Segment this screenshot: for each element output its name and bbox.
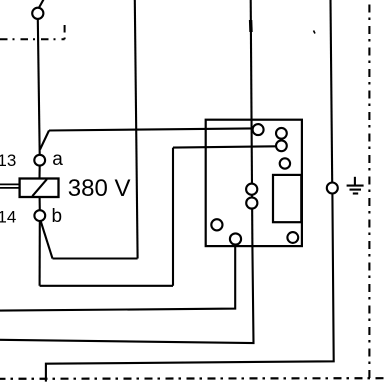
wire: vertical D from top to ring terminal xyxy=(331,0,333,183)
wire: vertical B up to top edge xyxy=(135,0,138,259)
terminal 1 in box xyxy=(253,124,264,135)
component inside box xyxy=(273,175,301,222)
svg-text:13: 13 xyxy=(0,151,16,170)
svg-text:14: 14 xyxy=(0,208,16,227)
svg-text:b: b xyxy=(52,206,63,227)
wire: vertical A from top terminal to node a xyxy=(38,19,40,155)
terminal 4 in box xyxy=(280,158,290,168)
terminal 9 in box xyxy=(287,232,298,243)
connector box U1 xyxy=(206,120,302,246)
scan speck near vertical D xyxy=(314,31,316,34)
wire: horizontal to vertical B xyxy=(53,257,138,259)
relay coil K (380 V) xyxy=(20,179,59,198)
wire: branch jog from vertical A to box feed xyxy=(40,131,49,150)
enclosure border bottom (dash-dot) xyxy=(0,377,384,380)
wire: horizontal from b-leg to riser xyxy=(40,285,173,287)
node b xyxy=(34,210,45,221)
wire: vertical C from top through box xyxy=(251,0,253,246)
enclosure border top-left (dash-dot corner) xyxy=(0,25,65,39)
wire: vertical C thick blemish xyxy=(249,20,253,32)
svg-text:a: a xyxy=(52,149,63,170)
wire: relay coil bottom to node b xyxy=(39,197,41,210)
wire: vertical C below box down and left to edge xyxy=(0,246,254,343)
relay coil feed double line xyxy=(0,184,20,188)
enclosure border right (dash-dot) xyxy=(368,0,370,379)
ring terminal on vertical D xyxy=(327,183,338,194)
terminal: top of wire A xyxy=(32,8,43,19)
terminal 6 on vertical C xyxy=(246,197,257,208)
wire: switch lever above top terminal xyxy=(39,0,44,8)
terminal 2 in box xyxy=(276,128,287,139)
terminal 7 in box xyxy=(211,219,222,230)
wire: horizontal feed to terminal 3 of box xyxy=(173,146,277,147)
terminal 8 in box xyxy=(230,233,241,244)
wire: vertical below node b xyxy=(39,221,41,286)
wire: vertical D below ring terminal, to bottom-left drop xyxy=(46,193,334,381)
terminal 5 on vertical C xyxy=(246,184,257,195)
wire: node a to relay coil top xyxy=(38,166,40,179)
svg-text:380 V: 380 V xyxy=(68,175,131,202)
wire: horizontal feed to terminal 1 of box xyxy=(49,128,253,130)
ground symbol xyxy=(347,177,364,194)
wire: riser up to box feed 2 xyxy=(172,148,174,286)
terminal 3 in box xyxy=(276,140,287,151)
node a xyxy=(34,155,45,166)
wire: drop from terminal 8 and left to edge xyxy=(0,244,235,310)
relay coil diagonal xyxy=(32,179,47,196)
wire: diagonal from node b xyxy=(41,222,53,259)
